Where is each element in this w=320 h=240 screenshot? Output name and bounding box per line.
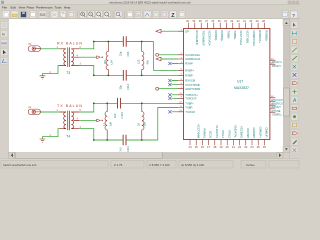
pin 15 VCCTXMM (bottom) xyxy=(195,140,197,146)
svg-text:39: 39 xyxy=(192,19,195,23)
pin 14 (bottom) xyxy=(189,140,191,146)
svg-text:DVBRXA+: DVBRXA+ xyxy=(258,30,262,43)
pin 9 VCCTXPAB (left) xyxy=(178,84,184,86)
svg-text:GNDTXPAB: GNDTXPAB xyxy=(185,87,200,91)
wire T4 pin4 (center tap) xyxy=(79,119,96,121)
svg-text:?: ? xyxy=(292,13,295,18)
svg-text:L23: L23 xyxy=(137,59,141,64)
no-connect X (RXHP) xyxy=(168,62,171,65)
svg-text:RXOUT+: RXOUT+ xyxy=(272,61,283,64)
svg-text:RXBF+: RXBF+ xyxy=(185,69,194,73)
pin 10 TXBF+ (left) xyxy=(178,102,184,104)
svg-text:VCCTXMM: VCCTXMM xyxy=(196,124,200,138)
svg-text:TXBBI+: TXBBI+ xyxy=(233,30,237,40)
svg-text:PABIAS: PABIAS xyxy=(203,128,207,138)
svg-text:31: 31 xyxy=(243,19,246,23)
no-connect marker on center tap xyxy=(97,56,101,59)
pin 39 RXVGABUF (top) xyxy=(194,23,196,29)
svg-text:28: 28 xyxy=(262,19,265,23)
pin 42 GNDPLL (right) xyxy=(270,112,276,114)
ground symbol (TX) xyxy=(40,139,46,142)
pin 43 RXOUT- (right) xyxy=(270,63,276,65)
wire T4 pin6 to top rail xyxy=(79,103,94,112)
svg-text:In: In xyxy=(2,33,5,37)
svg-text:VCCTXVGA: VCCTXVGA xyxy=(239,30,243,45)
pin 20 XTAL2 (bottom) xyxy=(226,140,228,146)
wire T4 pin2 to ground xyxy=(43,129,60,139)
no-connect X (RXVCM) xyxy=(168,79,171,82)
pin 37 VCCRXVGA (top) xyxy=(207,23,209,29)
pin 8 RXVCM (left) xyxy=(178,80,184,82)
op IC U17 MAX2837 body xyxy=(184,29,270,140)
svg-text:dx 8.950 dy 4.100: dx 8.950 dy 4.100 xyxy=(181,163,204,167)
svg-text:33p: 33p xyxy=(119,85,123,90)
wire RX top rail xyxy=(94,41,154,43)
svg-text:35: 35 xyxy=(218,19,221,23)
svg-text:C69: C69 xyxy=(126,51,130,56)
svg-text:7n5: 7n5 xyxy=(119,147,123,152)
pin 23 VCCSPI (bottom) xyxy=(245,140,247,146)
svg-text:RXVCM: RXVCM xyxy=(185,79,195,83)
left toolbar xyxy=(0,19,9,159)
pin 28 RXBBQ+ (top) xyxy=(264,23,266,29)
svg-text:Inches: Inches xyxy=(246,163,255,167)
no-connect marker on TX center tap xyxy=(97,119,101,122)
svg-text:XTAL1: XTAL1 xyxy=(221,130,225,139)
svg-text:VCCRXVGA: VCCRXVGA xyxy=(208,30,212,45)
svg-text:14: 14 xyxy=(188,145,192,149)
no-connect X (TXPOUT+) xyxy=(168,93,171,96)
pin 45 VTUNE (right) xyxy=(270,108,276,110)
wire RX filter output to pin 5 xyxy=(154,42,179,71)
pin 19 XTAL1 (bottom) xyxy=(220,140,222,146)
svg-text:Edit: Edit xyxy=(11,5,16,9)
svg-text:39n: 39n xyxy=(103,59,107,64)
svg-text:T4: T4 xyxy=(66,134,70,138)
wire TX filter to pin 11 xyxy=(158,108,178,141)
global label arrow (DP) xyxy=(156,29,161,33)
pin 7 GNDTXPAB (left) xyxy=(178,88,184,90)
pin 40 (top) xyxy=(188,23,190,29)
inductor L23 xyxy=(142,42,144,76)
svg-text:RXBBQ+: RXBBQ+ xyxy=(265,30,269,42)
window chrome background xyxy=(0,0,300,170)
svg-text:mm: mm xyxy=(2,42,8,46)
pin 6 RXBF- (left) xyxy=(178,74,184,76)
svg-text:24: 24 xyxy=(250,145,254,149)
scrollbar corner xyxy=(290,152,300,158)
inductor L8 xyxy=(142,103,144,140)
pin 4 RXHP (left) xyxy=(178,63,184,65)
svg-text:L24: L24 xyxy=(110,60,114,65)
svg-text:TXPOUT+: TXPOUT+ xyxy=(185,93,198,97)
pin 46 CPOUT (right) xyxy=(270,104,276,106)
pin 47 GNDVCO (right) xyxy=(270,101,276,103)
wire P3 to T3 pin1 xyxy=(40,48,59,50)
capacitor C112 xyxy=(123,70,126,81)
pin 21 GNDXTAL (bottom) xyxy=(232,140,234,146)
wire P4 to T4 pin1 xyxy=(40,111,59,113)
svg-text:TXPOUT-: TXPOUT- xyxy=(185,97,197,101)
svg-text:VCCTXBB: VCCTXBB xyxy=(246,30,250,43)
svg-text:eeschema (2013-06-14 BZR 4022): eeschema (2013-06-14 BZR 4022)-stable ha… xyxy=(109,0,191,4)
no-connect X (TXVCM) xyxy=(168,110,171,113)
svg-text:CMBUF-: CMBUF- xyxy=(265,127,269,138)
svg-text:DP: DP xyxy=(185,29,189,33)
svg-text:Z 1.75: Z 1.75 xyxy=(114,163,123,167)
svg-text:SCLK: SCLK xyxy=(209,131,213,138)
status bar xyxy=(0,159,300,171)
pin 26 CMBUF- (bottom) xyxy=(263,140,265,146)
svg-text:29: 29 xyxy=(256,19,259,23)
svg-text:TXBBI-: TXBBI- xyxy=(227,30,231,39)
no-connect X (TXPOUT-) xyxy=(168,97,171,100)
transformer T3 xyxy=(59,47,79,67)
pin 29 DVBRXA+ (top) xyxy=(257,23,259,29)
transformer T4 xyxy=(59,111,79,131)
svg-text:Place: Place xyxy=(27,5,35,9)
svg-text:GNDSPI: GNDSPI xyxy=(252,128,256,139)
wire RX bottom rail xyxy=(94,74,178,76)
capacitor C69 xyxy=(123,36,126,47)
pin 34 TXBBI- (top) xyxy=(226,23,228,29)
svg-text:GNDRXLNA: GNDRXLNA xyxy=(185,57,200,61)
svg-text:DVBRQ-: DVBRQ- xyxy=(214,30,218,41)
ground symbol (RX) xyxy=(40,76,46,79)
junctions RX xyxy=(93,41,95,43)
svg-text:VCMRXVGA: VCMRXVGA xyxy=(252,30,256,46)
svg-text:U17: U17 xyxy=(237,80,243,84)
no-connect X (VCCTXPAB) xyxy=(168,83,171,86)
capacitor C104 xyxy=(118,98,121,109)
svg-text:VCCTXPAB: VCCTXPAB xyxy=(185,83,199,87)
svg-text:MAX2837: MAX2837 xyxy=(234,86,249,90)
pin 13 TXVCM (left) xyxy=(178,111,184,113)
wire T4 pin3 to bottom rail xyxy=(79,129,94,140)
pin 9 TXPOUT- (left) xyxy=(178,97,184,99)
pin 2 VCCRXLNA (left) xyxy=(178,54,184,56)
pin 5 RXBF+ (left) xyxy=(178,69,184,71)
pin 48 VCCVCO (right) xyxy=(270,97,276,99)
global label arrow (GNDRXLNA) xyxy=(156,57,161,61)
pin 30 VCMRXVGA (top) xyxy=(251,23,253,29)
svg-text:TXBF+: TXBF+ xyxy=(185,102,194,106)
svg-text:30: 30 xyxy=(249,19,252,23)
svg-text:View: View xyxy=(19,5,26,9)
pin 17 SCLK (bottom) xyxy=(208,140,210,146)
schematic canvas xyxy=(9,19,283,152)
svg-text:RX BALUN: RX BALUN xyxy=(57,42,82,46)
connector P4 (TX SMA) xyxy=(28,109,40,115)
svg-text:Preferences: Preferences xyxy=(36,5,53,9)
svg-text:GNDPLL: GNDPLL xyxy=(272,114,283,117)
svg-text:32: 32 xyxy=(237,19,240,23)
svg-text:21: 21 xyxy=(232,145,236,149)
svg-text:40: 40 xyxy=(186,19,189,23)
svg-text:3n9: 3n9 xyxy=(113,113,117,118)
svg-text:22p: 22p xyxy=(119,51,123,56)
pin 22 VCCBIAS (bottom) xyxy=(239,140,241,146)
junctions TX xyxy=(93,102,95,104)
pin 24 GNDSPI (bottom) xyxy=(251,140,253,146)
svg-text:15: 15 xyxy=(195,145,199,149)
svg-text:RXOUT-: RXOUT- xyxy=(272,65,282,68)
pin 31 VCCTXBB (top) xyxy=(245,23,247,29)
svg-text:TXBF-: TXBF- xyxy=(185,106,193,110)
power port circle (GNDTXPAB) xyxy=(156,87,159,90)
svg-text:1n8: 1n8 xyxy=(109,122,113,127)
vertical scrollbar xyxy=(283,19,290,152)
svg-text:RXBF-: RXBF- xyxy=(185,74,193,78)
inductor L24 xyxy=(106,42,108,76)
svg-text:26: 26 xyxy=(263,145,267,149)
svg-text:25: 25 xyxy=(257,145,261,149)
svg-text:Tools: Tools xyxy=(55,5,63,9)
svg-text:38: 38 xyxy=(199,19,202,23)
svg-text:TXGAINBUF: TXGAINBUF xyxy=(201,30,205,46)
wire T3 pin4 (center tap) xyxy=(79,56,96,58)
svg-text:33n: 33n xyxy=(142,122,146,127)
wire T3 pin2 to ground xyxy=(43,66,60,76)
svg-text:34: 34 xyxy=(224,19,227,23)
svg-text:hackrf-one/hackrf-one.sch: hackrf-one/hackrf-one.sch xyxy=(3,163,37,167)
pin 38 TXGAINBUF (top) xyxy=(200,23,202,29)
svg-text:33: 33 xyxy=(230,19,233,23)
svg-text:37: 37 xyxy=(205,19,208,23)
svg-text:C104: C104 xyxy=(120,112,124,119)
pin 32 VCCTXVGA (top) xyxy=(238,23,240,29)
svg-text:RXHP: RXHP xyxy=(185,62,193,66)
pin 18 CLKOUT2 (bottom) xyxy=(214,140,216,146)
power port circle (VCCRXLNA) xyxy=(156,53,159,56)
pin 12 TXPOUT+ (left) xyxy=(178,94,184,96)
svg-text:T3: T3 xyxy=(66,71,70,75)
capacitor C111 xyxy=(123,135,126,146)
svg-text:22: 22 xyxy=(238,145,242,149)
svg-text:16: 16 xyxy=(201,145,205,149)
title bar xyxy=(0,0,300,5)
svg-text:TX BALUN: TX BALUN xyxy=(57,104,82,108)
svg-text:19: 19 xyxy=(219,145,223,149)
horizontal scrollbar xyxy=(9,152,283,158)
pin 16 PABIAS (bottom) xyxy=(201,140,203,146)
wire TX top rail to pin 10 xyxy=(94,102,178,104)
svg-text:DVBRQ+: DVBRQ+ xyxy=(220,30,224,42)
svg-text:18: 18 xyxy=(213,145,217,149)
svg-text:XTAL2: XTAL2 xyxy=(227,130,231,139)
connector P3 (RX SMA) xyxy=(28,46,40,52)
svg-text:43n: 43n xyxy=(145,60,149,65)
pin 1 DP (left) xyxy=(178,30,184,32)
svg-text:TXVCM: TXVCM xyxy=(185,110,195,114)
top toolbar xyxy=(0,18,300,20)
right toolbar xyxy=(290,19,300,159)
pin 3 GNDRXLNA (left) xyxy=(178,58,184,60)
pin 11 TXBF- (left) xyxy=(178,107,184,109)
pin 33 TXBBI+ (top) xyxy=(232,23,234,29)
pin 44 RXOUT+ (right) xyxy=(270,59,276,61)
svg-text:GNDXTAL: GNDXTAL xyxy=(234,125,238,138)
svg-text:C111: C111 xyxy=(126,146,130,152)
svg-text:23: 23 xyxy=(244,145,248,149)
pin 25 CMBUF+ (bottom) xyxy=(257,140,259,146)
svg-text:20: 20 xyxy=(226,145,230,149)
svg-text:Help: Help xyxy=(64,5,71,9)
pin 35 DVBRQ+ (top) xyxy=(219,23,221,29)
svg-text:VCCRXLNA: VCCRXLNA xyxy=(185,53,200,57)
wire T3 pin6 to node xyxy=(79,42,94,49)
wire TX bottom rail xyxy=(94,139,158,141)
svg-text:CLKOUT2: CLKOUT2 xyxy=(215,125,219,138)
svg-text:C112: C112 xyxy=(126,83,130,90)
svg-text:File: File xyxy=(2,5,7,9)
inductor L7 xyxy=(105,103,107,140)
svg-text:CMBUF+: CMBUF+ xyxy=(258,127,262,139)
pin 36 DVBRQ- (top) xyxy=(213,23,215,29)
svg-text:VCCSPI: VCCSPI xyxy=(246,128,250,138)
wire T3 pin3 to bottom rail xyxy=(79,66,94,76)
svg-text:X 8.950 Y 4.100: X 8.950 Y 4.100 xyxy=(149,163,170,167)
svg-text:RXVGABUF: RXVGABUF xyxy=(195,30,199,45)
svg-text:17: 17 xyxy=(207,145,211,149)
svg-text:VCCBIAS: VCCBIAS xyxy=(240,126,244,138)
svg-text:36: 36 xyxy=(211,19,214,23)
